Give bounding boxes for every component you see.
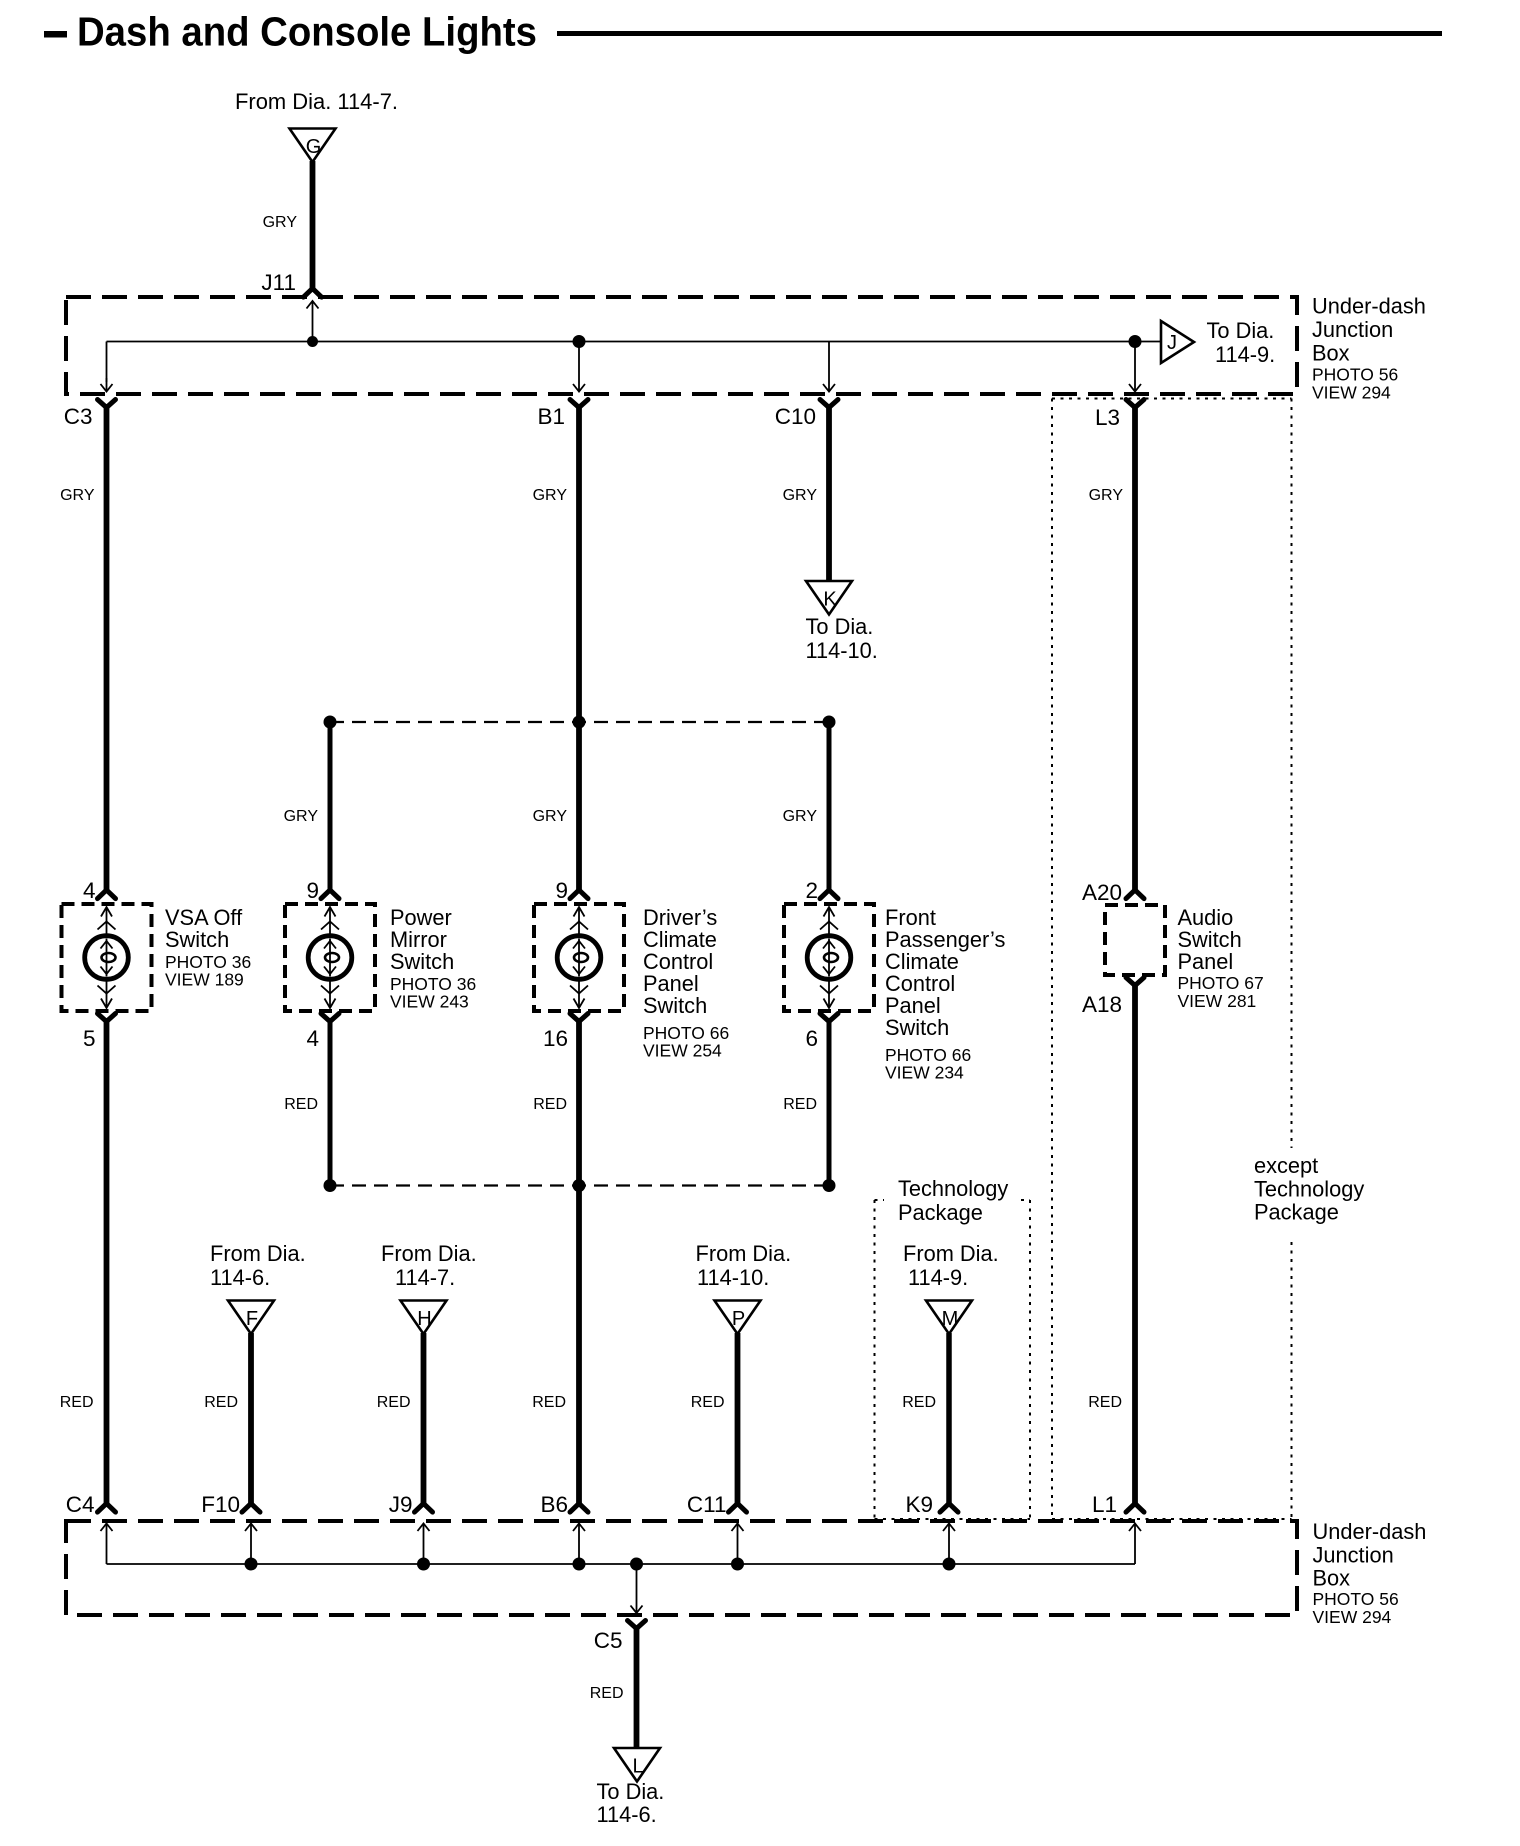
- label GRY (Front Passenger wire): [783, 808, 818, 825]
- wire GRY G to J11: [310, 161, 316, 289]
- connector C3: [98, 400, 116, 408]
- wire RED F to F10: [248, 1333, 254, 1504]
- svg-text:GRY: GRY: [263, 214, 298, 231]
- label Technology Package: [898, 1176, 1008, 1225]
- svg-text:From Dia.: From Dia.: [210, 1241, 306, 1266]
- wire RED Driver pin16 to B6: [576, 1019, 582, 1504]
- svg-text:Junction: Junction: [1313, 1542, 1394, 1567]
- svg-text:5: 5: [83, 1026, 96, 1051]
- label To Dia. 114-9.: [1207, 318, 1276, 367]
- wire riser to C4: [101, 1524, 113, 1565]
- svg-text:L1: L1: [1092, 1492, 1117, 1517]
- svg-text:G: G: [306, 136, 322, 158]
- label B1: [537, 404, 565, 429]
- label RED (Power Mirror wire): [284, 1096, 318, 1113]
- connector C10: [820, 400, 838, 408]
- wire GRY tap to Front Passenger pin 2: [827, 722, 832, 890]
- label Under-dash Junction Box (top): [1312, 294, 1426, 403]
- svg-text:PHOTO 67: PHOTO 67: [1178, 973, 1264, 993]
- label Power Mirror Switch: [390, 905, 476, 1012]
- svg-text:6: 6: [805, 1026, 818, 1051]
- Power Mirror Switch box: [285, 904, 375, 1011]
- svg-text:9: 9: [555, 878, 568, 903]
- svg-text:From Dia.: From Dia.: [381, 1241, 477, 1266]
- svg-text:C11: C11: [687, 1492, 727, 1517]
- svg-text:GRY: GRY: [533, 487, 568, 504]
- connector C5: [594, 1621, 646, 1654]
- svg-text:F: F: [246, 1308, 258, 1330]
- wire GRY C3 to VSA pin 4: [104, 405, 110, 890]
- connector B6: [540, 1492, 588, 1517]
- wire RED Power Mirror pin4 to tap: [328, 1019, 333, 1186]
- Technology Package box (dotted): [875, 1200, 1031, 1519]
- wire riser to L1: [1129, 1524, 1141, 1565]
- off-page connector F: [228, 1301, 274, 1335]
- label Audio Switch Panel: [1178, 905, 1264, 1011]
- label RED (Front Passenger wire): [783, 1096, 817, 1113]
- under-dash junction box (top): [66, 297, 1297, 394]
- Audio Switch Panel box: [1105, 905, 1165, 975]
- connector L3: [1126, 400, 1144, 408]
- svg-text:From Dia.: From Dia.: [903, 1241, 999, 1266]
- label GRY (Power Mirror wire): [284, 808, 319, 825]
- label GRY (G wire): [263, 214, 298, 231]
- junction dot tap-FrontPass: [823, 716, 836, 729]
- svg-text:Switch: Switch: [165, 927, 229, 952]
- bus wire (top box): [107, 341, 1136, 343]
- lamp (Power Mirror Switch): [308, 907, 352, 1008]
- label RED (Driver wire): [533, 1096, 567, 1113]
- label L3: [1095, 405, 1120, 430]
- label RED (C5 wire): [590, 1685, 624, 1702]
- svg-text:GRY: GRY: [533, 808, 568, 825]
- svg-text:B1: B1: [537, 404, 565, 429]
- wire GRY L3 to A20: [1132, 405, 1138, 890]
- svg-text:From Dia. 114-7.: From Dia. 114-7.: [235, 89, 398, 114]
- title heading: [44, 9, 537, 55]
- pin 4 (VSA): [83, 878, 116, 903]
- svg-text:PHOTO 56: PHOTO 56: [1313, 1589, 1399, 1609]
- svg-text:A20: A20: [1082, 880, 1122, 905]
- junction dot B6-bus: [573, 1558, 586, 1571]
- under-dash junction box (bottom): [66, 1521, 1297, 1615]
- svg-text:Switch: Switch: [643, 993, 707, 1018]
- svg-text:9: 9: [306, 878, 319, 903]
- svg-text:GRY: GRY: [60, 487, 95, 504]
- junction dot lower tap-PowerMirror: [324, 1179, 337, 1192]
- pin 4 (Power Mirror): [306, 1014, 339, 1052]
- wire GRY C10 to K: [826, 405, 832, 580]
- wire RED P to C11: [735, 1333, 741, 1504]
- svg-text:VIEW 234: VIEW 234: [885, 1063, 964, 1083]
- svg-text:Box: Box: [1313, 1566, 1351, 1591]
- wire drop to C10: [823, 342, 835, 392]
- junction dot J11-bus: [307, 336, 318, 347]
- label VSA Off Switch: [165, 905, 251, 990]
- label RED (B6 wire): [532, 1394, 566, 1411]
- label Driver's Climate Control Panel Switch: [643, 905, 729, 1061]
- svg-text:GRY: GRY: [284, 808, 319, 825]
- svg-text:B6: B6: [540, 1492, 568, 1517]
- lamp (Front Passenger's Climate Switch): [807, 907, 851, 1008]
- svg-text:C4: C4: [66, 1492, 95, 1517]
- svg-text:K9: K9: [905, 1492, 933, 1517]
- junction dot K9-bus: [943, 1558, 956, 1571]
- svg-text:Technology: Technology: [898, 1176, 1008, 1201]
- svg-text:Under-dash: Under-dash: [1312, 294, 1426, 319]
- svg-text:L3: L3: [1095, 405, 1120, 430]
- svg-text:From Dia.: From Dia.: [696, 1241, 792, 1266]
- svg-text:VIEW 294: VIEW 294: [1312, 383, 1391, 403]
- label RED (L1 wire): [1088, 1394, 1122, 1411]
- wire RED A18 to L1: [1132, 983, 1138, 1504]
- svg-text:114-10.: 114-10.: [806, 638, 878, 663]
- pin A20 (Audio): [1082, 880, 1144, 905]
- wire riser to C11: [732, 1524, 744, 1565]
- svg-text:Under-dash: Under-dash: [1313, 1519, 1427, 1544]
- svg-text:C10: C10: [775, 404, 816, 429]
- svg-text:VIEW 254: VIEW 254: [643, 1041, 722, 1061]
- svg-text:H: H: [417, 1308, 431, 1330]
- label GRY (Driver wire): [533, 808, 568, 825]
- svg-text:M: M: [942, 1308, 959, 1330]
- svg-text:GRY: GRY: [783, 487, 818, 504]
- svg-text:RED: RED: [284, 1096, 318, 1113]
- connector J9: [389, 1492, 433, 1517]
- svg-text:C5: C5: [594, 1628, 623, 1653]
- svg-text:GRY: GRY: [1089, 487, 1124, 504]
- label C3: [64, 404, 93, 429]
- svg-text:114-10.: 114-10.: [697, 1265, 769, 1290]
- junction dot tap-PowerMirror: [324, 716, 337, 729]
- off-page connector P: [715, 1301, 761, 1335]
- svg-text:4: 4: [83, 878, 96, 903]
- svg-text:Box: Box: [1312, 341, 1350, 366]
- wire RED C5 to L: [634, 1626, 640, 1748]
- wire drop to L3: [1129, 342, 1141, 392]
- label From Dia. 114-7. (H): [381, 1241, 477, 1290]
- svg-text:GRY: GRY: [783, 808, 818, 825]
- wire GRY tap to Power Mirror pin 9: [328, 722, 333, 890]
- svg-text:VIEW 281: VIEW 281: [1178, 991, 1257, 1011]
- label C10: [775, 404, 816, 429]
- off-page connector H: [401, 1301, 447, 1335]
- svg-text:2: 2: [805, 878, 818, 903]
- wire drop to B1: [573, 342, 585, 392]
- label GRY (L3 wire): [1089, 487, 1124, 504]
- svg-text:J9: J9: [389, 1492, 413, 1517]
- except Technology Package box (dotted): [1052, 399, 1292, 1520]
- junction dot tap-B1: [573, 716, 586, 729]
- svg-text:RED: RED: [1088, 1394, 1122, 1411]
- svg-text:RED: RED: [783, 1096, 817, 1113]
- connector C4: [66, 1492, 116, 1517]
- svg-text:K: K: [823, 589, 837, 611]
- junction dot B1-bus: [573, 335, 586, 348]
- bus wire (bottom box): [107, 1563, 1136, 1565]
- connector F10: [201, 1492, 260, 1517]
- svg-text:RED: RED: [60, 1394, 94, 1411]
- svg-text:RED: RED: [532, 1394, 566, 1411]
- label GRY (B1 wire): [533, 487, 568, 504]
- pin 9 (Power Mirror): [306, 878, 339, 903]
- junction dot C5-bus: [630, 1558, 643, 1571]
- label From Dia. 114-6. (F): [210, 1241, 306, 1290]
- svg-text:Switch: Switch: [885, 1015, 949, 1040]
- connector C11: [687, 1492, 747, 1517]
- Driver's Climate Control Panel Switch box: [534, 904, 624, 1011]
- title rule: [557, 31, 1442, 36]
- junction dot lower tap-Driver: [573, 1179, 586, 1192]
- wire RED Front Passenger pin6 to tap: [827, 1019, 832, 1186]
- svg-text:J11: J11: [261, 270, 296, 295]
- svg-text:RED: RED: [204, 1394, 238, 1411]
- label To Dia. 114-10.: [806, 614, 878, 663]
- connector J11: [304, 289, 322, 298]
- svg-text:4: 4: [306, 1026, 319, 1051]
- svg-text:To Dia.: To Dia.: [1207, 318, 1275, 343]
- off-page connector M: [926, 1301, 972, 1335]
- svg-text:PHOTO 56: PHOTO 56: [1312, 365, 1398, 385]
- junction dot C11-bus: [731, 1558, 744, 1571]
- svg-text:To Dia.: To Dia.: [806, 614, 874, 639]
- off-page connector J: [1161, 321, 1194, 363]
- svg-text:Switch: Switch: [390, 949, 454, 974]
- svg-text:except: except: [1254, 1153, 1318, 1178]
- svg-text:RED: RED: [533, 1096, 567, 1113]
- junction dot F10-bus: [245, 1558, 258, 1571]
- svg-text:114-9.: 114-9.: [1215, 342, 1275, 367]
- wire drop to C3: [101, 342, 113, 392]
- svg-text:VIEW 294: VIEW 294: [1313, 1607, 1392, 1627]
- off-page connector L: [614, 1748, 660, 1782]
- svg-text:Panel: Panel: [1178, 949, 1234, 974]
- pin 2 (Front Passenger climate): [805, 878, 838, 903]
- lamp (Driver's Climate Switch): [557, 907, 601, 1008]
- svg-text:VIEW 189: VIEW 189: [165, 970, 244, 990]
- wire GRY B1 to pin 9: [576, 405, 582, 890]
- svg-text:114-6.: 114-6.: [210, 1265, 270, 1290]
- junction dot lower tap-FrontPass: [823, 1179, 836, 1192]
- svg-text:C3: C3: [64, 404, 93, 429]
- junction dot J9-bus: [417, 1558, 430, 1571]
- svg-text:RED: RED: [590, 1685, 624, 1702]
- svg-text:RED: RED: [691, 1394, 725, 1411]
- pin 6 (Front Passenger climate): [805, 1014, 838, 1052]
- wire riser to K9: [943, 1524, 955, 1565]
- wire J11 drop into box: [307, 301, 319, 342]
- wire RED H to J9: [421, 1333, 427, 1504]
- label From Dia. 114-10. (P): [696, 1241, 792, 1290]
- label Under-dash Junction Box (bottom): [1313, 1519, 1427, 1627]
- label RED (C4 wire): [60, 1394, 94, 1411]
- svg-text:J: J: [1167, 332, 1177, 354]
- label Front Passenger's Climate Control Panel Switch: [885, 905, 1005, 1083]
- label J11: [261, 270, 296, 295]
- junction dot L3-bus: [1129, 335, 1142, 348]
- label GRY (C10 wire): [783, 487, 818, 504]
- svg-text:Technology: Technology: [1254, 1176, 1364, 1201]
- label RED (J9 wire): [377, 1394, 411, 1411]
- pin 16 (Driver climate): [543, 1014, 588, 1052]
- svg-text:A18: A18: [1082, 992, 1122, 1017]
- tap wire (dashed) lower: [330, 1184, 829, 1186]
- svg-text:To Dia.: To Dia.: [597, 1779, 665, 1804]
- svg-text:114-7.: 114-7.: [395, 1265, 455, 1290]
- off-page connector G: [290, 129, 336, 163]
- svg-text:114-6.: 114-6.: [597, 1802, 657, 1827]
- label From Dia. 114-7.: [235, 89, 398, 114]
- label RED (C11 wire): [691, 1394, 725, 1411]
- svg-text:P: P: [732, 1308, 745, 1330]
- wire bus to connector J: [1135, 341, 1161, 343]
- label except Technology Package: [1254, 1153, 1364, 1225]
- svg-text:L: L: [632, 1756, 643, 1778]
- svg-text:Package: Package: [1254, 1200, 1339, 1225]
- wire drop to C5: [631, 1564, 643, 1613]
- connector B1: [570, 400, 588, 408]
- label RED (K9 wire): [902, 1394, 936, 1411]
- connector L1: [1092, 1492, 1144, 1517]
- svg-text:16: 16: [543, 1026, 568, 1051]
- svg-text:114-9.: 114-9.: [908, 1265, 968, 1290]
- off-page connector K: [806, 581, 852, 615]
- wire RED VSA pin5 to C4: [104, 1019, 110, 1504]
- lamp (VSA Off Switch): [85, 907, 129, 1008]
- wire riser to J9: [418, 1524, 430, 1565]
- label GRY (C3 wire): [60, 487, 95, 504]
- wire riser to B6: [573, 1524, 585, 1565]
- svg-text:RED: RED: [902, 1394, 936, 1411]
- label RED (F10 wire): [204, 1394, 238, 1411]
- svg-text:Junction: Junction: [1312, 317, 1393, 342]
- connector K9: [905, 1492, 958, 1517]
- label To Dia. 114-6. (L): [597, 1779, 665, 1827]
- wire RED M to K9: [946, 1333, 952, 1504]
- Front Passenger's Climate Control Panel Switch box: [784, 904, 874, 1011]
- wire riser to F10: [245, 1524, 257, 1565]
- svg-text:VIEW 243: VIEW 243: [390, 992, 469, 1012]
- svg-text:F10: F10: [201, 1492, 240, 1517]
- svg-text:Dash and Console Lights: Dash and Console Lights: [77, 9, 537, 55]
- pin 5 (VSA): [83, 1014, 116, 1052]
- pin A18 (Audio): [1082, 978, 1144, 1018]
- VSA Off Switch box: [62, 904, 152, 1011]
- svg-text:Package: Package: [898, 1200, 983, 1225]
- svg-text:RED: RED: [377, 1394, 411, 1411]
- pin 9 (Driver climate): [555, 878, 588, 903]
- tap wire (dashed) between branches: [330, 721, 829, 723]
- label From Dia. 114-9. (M): [903, 1241, 999, 1290]
